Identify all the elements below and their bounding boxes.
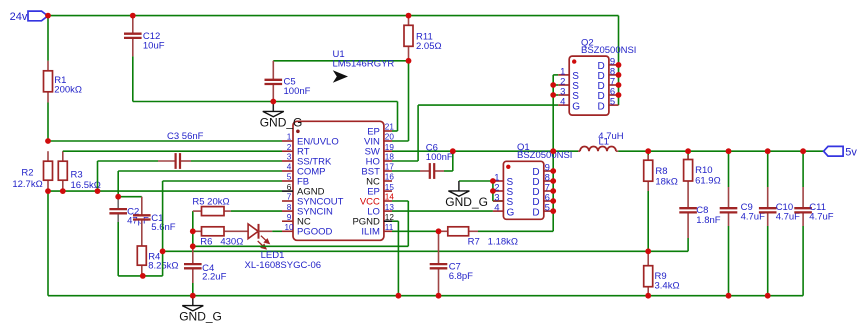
svg-text:4: 4 xyxy=(287,163,292,172)
wire: VIN node horizontal C5 to R11 bottom xyxy=(273,60,408,62)
transistor Q1 BSZ0500NSI body xyxy=(503,161,543,219)
svg-text:R2: R2 xyxy=(21,168,33,179)
capacitor C3 xyxy=(158,160,176,162)
wire: FB pin5 left and down xyxy=(163,180,282,182)
resistor R9 xyxy=(647,251,649,265)
resistor R4 xyxy=(141,230,143,246)
wire: 24v down to R1 xyxy=(47,16,49,61)
U1 pin 16 NC xyxy=(384,180,392,182)
wire: ILIM pin11 to R7 xyxy=(392,230,439,232)
wire: HO pin18 up and to Q2 gate xyxy=(392,160,418,162)
wire: Q1 source pins tie xyxy=(492,181,494,201)
svg-text:9: 9 xyxy=(287,213,292,222)
Q2 pin 5 D xyxy=(609,104,619,106)
svg-text:6: 6 xyxy=(287,183,292,192)
wire: SW vertical Q2 sources to Q1 drains to R7 xyxy=(552,75,554,231)
capacitor C1 xyxy=(141,197,143,216)
wire: EP pin21 up to ground line xyxy=(392,130,398,132)
svg-text:16: 16 xyxy=(385,173,395,182)
cursor arrow marker xyxy=(333,70,348,82)
svg-text:3: 3 xyxy=(287,153,292,162)
Q2 pin 6 D xyxy=(609,94,619,96)
wire: EN/UVLO from R1-R2 node to U1 pin1 xyxy=(48,140,282,142)
Q1 pin 1 S xyxy=(493,180,504,182)
svg-text:4.7uF: 4.7uF xyxy=(809,212,833,223)
svg-text:3.4kΩ: 3.4kΩ xyxy=(655,281,680,292)
wire: AGND line R2/R3 bottoms to U1 pin6 xyxy=(48,190,282,192)
svg-text:D: D xyxy=(532,207,539,218)
ground GND_G below C5 xyxy=(272,102,274,112)
capacitor C9 xyxy=(728,151,730,187)
resistor R6 xyxy=(193,230,202,232)
capacitor C4 xyxy=(192,246,194,264)
capacitor C11 xyxy=(802,151,804,187)
svg-text:GND_G: GND_G xyxy=(179,310,222,324)
svg-text:10uF: 10uF xyxy=(143,41,165,52)
svg-text:47pF: 47pF xyxy=(127,216,149,227)
wire: Q2 drain drop from top rail xyxy=(618,16,620,106)
svg-text:6.8pF: 6.8pF xyxy=(449,271,473,282)
Q2 pin 2 S xyxy=(558,84,569,86)
wire: FB long line to output divider xyxy=(163,250,649,252)
Q1 pin 6 D xyxy=(544,200,553,202)
capacitor C2 xyxy=(117,197,119,210)
wire: output rail to 5v xyxy=(618,150,823,152)
svg-text:R7 1.18kΩ: R7 1.18kΩ xyxy=(468,236,518,247)
wire: COMP pin4 left and down xyxy=(118,170,282,172)
capacitor C8 xyxy=(687,186,689,208)
svg-text:LM5146RGYR: LM5146RGYR xyxy=(333,59,395,70)
inductor L1 xyxy=(578,150,580,152)
net flag 24v xyxy=(28,11,48,21)
wire: 24V top rail xyxy=(48,15,619,17)
wire: C8 bottom to FB node xyxy=(687,238,689,251)
ground GND_G at Q1 xyxy=(458,181,460,191)
ground GND_G bottom left xyxy=(192,296,194,306)
svg-text:5: 5 xyxy=(287,173,292,182)
wire: PGND pin12 down to ground rail xyxy=(392,220,398,222)
svg-text:2.05Ω: 2.05Ω xyxy=(416,41,442,52)
LED1 arrows xyxy=(258,236,269,249)
svg-text:G: G xyxy=(507,207,515,218)
svg-text:200kΩ: 200kΩ xyxy=(54,85,82,96)
svg-text:61.9Ω: 61.9Ω xyxy=(695,176,721,187)
svg-text:4: 4 xyxy=(494,203,499,214)
U1 pin 17 BST xyxy=(384,170,392,172)
U1 pin 2 RT xyxy=(282,150,293,152)
wire: SW pin19 to inductor xyxy=(392,150,580,152)
svg-text:D: D xyxy=(597,101,604,112)
wire: R5 to SYNCIN pin8 xyxy=(231,210,282,212)
resistor R8 xyxy=(647,151,649,160)
resistor R2 xyxy=(47,151,49,161)
wire: BST pin17 to C6 xyxy=(392,170,420,172)
svg-text:GND_G: GND_G xyxy=(445,195,488,209)
wire: C12 down to ground line xyxy=(132,56,134,101)
Q1 pin 2 S xyxy=(493,190,504,192)
LED1 xyxy=(239,230,248,232)
resistor R1 xyxy=(47,61,49,71)
svg-text:18kΩ: 18kΩ xyxy=(655,177,677,188)
wire: LED to PGOOD pin10 xyxy=(272,230,282,232)
wire: C3 left to AGND xyxy=(98,160,159,162)
svg-text:PGOOD: PGOOD xyxy=(297,227,333,238)
wire: RT from R3 to U1 pin2 xyxy=(63,150,282,152)
Q1 pin 4 G xyxy=(493,210,504,212)
wire: Q2 source pins tie xyxy=(553,74,558,76)
wire: COMP node to C1 branch xyxy=(118,196,142,198)
svg-text:2.2uF: 2.2uF xyxy=(202,272,226,283)
svg-text:4: 4 xyxy=(560,97,565,108)
U1 pin 6 AGND xyxy=(282,190,293,192)
wire: C6 right up to SW xyxy=(444,170,453,172)
Q1 pin 8 D xyxy=(544,180,553,182)
wire: bottom ground rail xyxy=(48,295,803,297)
svg-text:5: 5 xyxy=(610,97,615,108)
Q2 pin 8 D xyxy=(609,74,619,76)
svg-text:ILIM: ILIM xyxy=(361,227,380,238)
resistor R3 xyxy=(62,151,64,161)
U1 pin 3 SS/TRK xyxy=(282,160,293,162)
svg-text:5.6nF: 5.6nF xyxy=(151,222,175,233)
svg-text:100nF: 100nF xyxy=(426,152,453,163)
svg-text:12.7kΩ: 12.7kΩ xyxy=(12,179,42,190)
transistor Q2 BSZ0500NSI body xyxy=(569,56,609,115)
resistor R11 xyxy=(408,16,410,26)
svg-text:10: 10 xyxy=(284,223,294,232)
U1 pin 13 LO xyxy=(384,210,392,212)
U1 pin 12 PGND xyxy=(384,220,392,222)
resistor R10 xyxy=(687,151,689,159)
resistor R5 xyxy=(193,210,202,212)
svg-text:BSZ0500NSI: BSZ0500NSI xyxy=(517,150,572,161)
U1 pin 9 NC xyxy=(282,220,293,222)
svg-text:R10: R10 xyxy=(695,165,712,176)
Q2 pin 3 S xyxy=(558,94,569,96)
U1 pin 4 COMP xyxy=(282,170,293,172)
svg-text:1: 1 xyxy=(287,133,292,142)
wire: R7 to SW vertical xyxy=(478,230,553,232)
svg-text:1.8nF: 1.8nF xyxy=(696,215,720,226)
capacitor C5 xyxy=(272,61,274,80)
U1 pin 21 EP xyxy=(384,130,392,132)
svg-text:R8: R8 xyxy=(655,166,667,177)
U1 pin 8 SYNCIN xyxy=(282,210,293,212)
Q1 pin 9 D xyxy=(544,170,553,172)
svg-text:15: 15 xyxy=(385,183,395,192)
wire: R5-R6 vertical xyxy=(192,211,194,246)
svg-text:G: G xyxy=(572,101,580,112)
svg-text:7: 7 xyxy=(287,193,292,202)
junction dots xyxy=(45,13,51,19)
net flag 5v xyxy=(824,146,844,156)
U1 pin 5 FB xyxy=(282,180,293,182)
svg-text:L1: L1 xyxy=(599,137,610,148)
svg-text:R3: R3 xyxy=(71,170,83,181)
svg-text:20: 20 xyxy=(385,133,395,142)
U1 pin 14 VCC xyxy=(384,200,392,202)
wire: VCC line xyxy=(193,245,408,247)
U1 pin 1 EN/UVLO xyxy=(282,140,293,142)
capacitor C10 xyxy=(767,151,769,187)
U1 pin 7 SYNCOUT xyxy=(282,200,293,202)
svg-text:5: 5 xyxy=(545,203,550,214)
U1 pin 19 SW xyxy=(384,150,392,152)
wire: VIN down to U1 pin20 xyxy=(408,61,410,141)
svg-text:5v: 5v xyxy=(845,146,857,158)
U1 pin 15 EP xyxy=(384,190,392,192)
wire: C2 bottom down and across xyxy=(117,222,119,276)
capacitor C12 xyxy=(132,16,134,34)
Q2 pin 1 S xyxy=(558,74,569,76)
op-amp U1 LM5146RGYR body xyxy=(293,121,384,240)
U1 pin 18 HO xyxy=(384,160,392,162)
capacitor C7 xyxy=(438,231,440,264)
U1 pin 11 ILIM xyxy=(384,230,392,232)
Q1 pin 7 D xyxy=(544,190,553,192)
svg-text:21: 21 xyxy=(385,123,395,132)
svg-text:BSZ0500NSI: BSZ0500NSI xyxy=(581,45,636,56)
svg-text:2: 2 xyxy=(287,143,292,152)
Q2 pin 4 G xyxy=(558,104,569,106)
wire: LO pin13 to Q1 gate xyxy=(392,210,493,212)
svg-text:24v: 24v xyxy=(10,11,28,23)
U1 pin 20 VIN xyxy=(384,140,392,142)
Q1 pin 3 S xyxy=(493,200,504,202)
resistor R7 xyxy=(439,230,448,232)
wire: ground line C12 to EP corner xyxy=(133,101,398,103)
capacitor C6 xyxy=(420,170,430,172)
Q1 pin 5 D xyxy=(544,210,553,212)
svg-text:100nF: 100nF xyxy=(284,86,311,97)
svg-text:8: 8 xyxy=(287,203,292,212)
wire: left ground rail down xyxy=(47,191,49,296)
svg-text:XL-1608SYGC-06: XL-1608SYGC-06 xyxy=(245,260,322,271)
wire: SS/TRK pin3 to C3 xyxy=(191,160,282,162)
svg-text:C3 56nF: C3 56nF xyxy=(167,131,204,142)
wire: Q1 source to ground xyxy=(459,180,493,182)
svg-text:GND_G: GND_G xyxy=(260,115,303,129)
U1 pin 10 PGOOD xyxy=(282,230,293,232)
Q2 pin 7 D xyxy=(609,84,619,86)
Q2 pin 9 D xyxy=(609,64,619,66)
svg-text:R5 20kΩ: R5 20kΩ xyxy=(192,197,229,208)
